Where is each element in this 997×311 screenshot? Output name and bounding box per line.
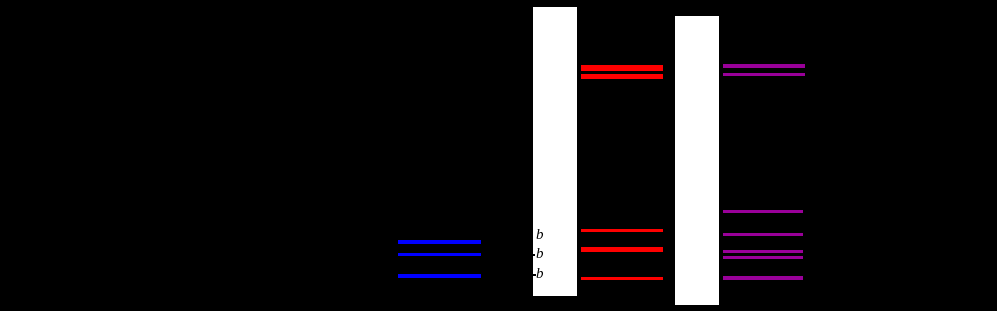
label b3 (536, 267, 551, 282)
black tick stub beside label b3 (533, 274, 536, 277)
black tick stub beside label b2 (533, 254, 535, 257)
red lower level line 2 (thick) (581, 247, 663, 252)
white band column 2 (675, 16, 719, 305)
red upper level line 1 (581, 65, 663, 71)
red upper level line 2 (581, 74, 663, 79)
blue level line 3 (398, 274, 481, 278)
label b2 (536, 247, 551, 262)
blue level line 2 (398, 253, 481, 257)
purple upper level line 2 (723, 73, 805, 76)
purple lower level line 5 (723, 276, 803, 280)
purple lower level line 1 (723, 210, 803, 213)
blue level line 1 (398, 240, 481, 244)
purple lower level line 4 (723, 256, 803, 259)
red lower level line 1 (581, 229, 663, 232)
purple lower level line 3 (723, 250, 803, 253)
label b1 (536, 228, 551, 243)
purple lower level line 2 (723, 233, 803, 236)
red lower level line 3 (581, 277, 663, 280)
purple upper level line 1 (723, 64, 805, 68)
white band column 1 (533, 7, 577, 296)
